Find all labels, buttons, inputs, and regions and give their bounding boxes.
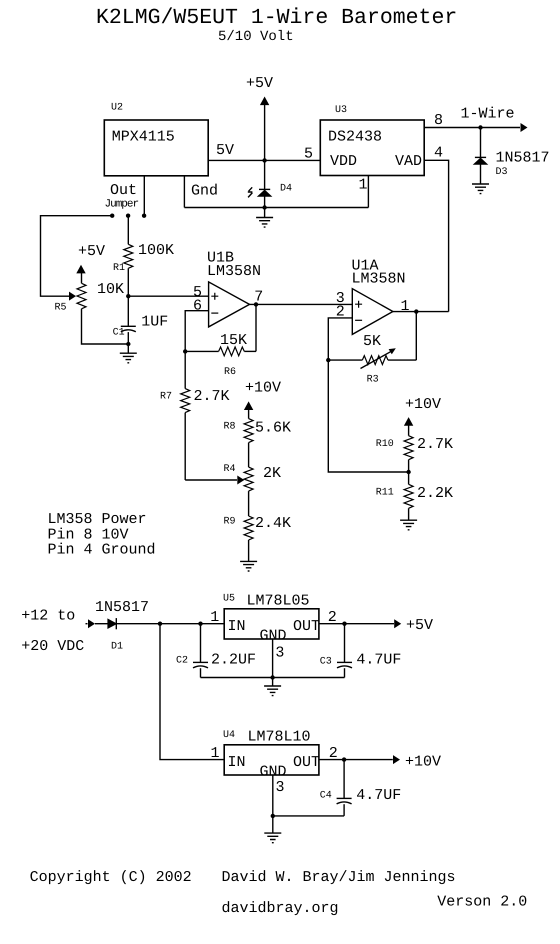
capacitor C1 1UF xyxy=(121,296,136,344)
wire U1B output to U1A pin 3 xyxy=(250,303,353,305)
node ground rail / D4 xyxy=(262,205,266,209)
potentiometer R4 2K xyxy=(244,467,253,516)
ground symbol (U5) xyxy=(264,678,281,696)
diode D3 xyxy=(474,128,487,185)
ground symbol (D4) xyxy=(256,208,273,228)
svg-text:Gnd: Gnd xyxy=(191,183,218,200)
wire U1B feedback xyxy=(255,304,257,351)
svg-text:6: 6 xyxy=(193,298,202,315)
R3 wiper arrow xyxy=(361,348,396,368)
IC U4 LM78L10 box xyxy=(224,745,319,775)
svg-text:1N5817: 1N5817 xyxy=(496,150,550,167)
svg-text:D3: D3 xyxy=(496,167,508,178)
svg-text:K2LMG/W5EUT 1-Wire Barometer: K2LMG/W5EUT 1-Wire Barometer xyxy=(96,6,457,30)
input wire stub xyxy=(86,623,88,625)
ground symbol (U4) xyxy=(264,816,281,843)
svg-text:5/10 Volt: 5/10 Volt xyxy=(218,29,294,45)
svg-text:Out: Out xyxy=(110,182,137,199)
jumper pad B xyxy=(126,214,130,218)
svg-text:2.2UF: 2.2UF xyxy=(211,652,256,669)
svg-text:R8: R8 xyxy=(224,422,236,433)
node 5V rail / D4 xyxy=(262,158,266,162)
node U1A output xyxy=(414,309,418,313)
resistor R9 2.4K xyxy=(244,516,253,561)
svg-text:2.7K: 2.7K xyxy=(417,436,453,453)
node U4 feed xyxy=(158,622,162,626)
IC U3 DS2438 box xyxy=(320,120,424,176)
svg-text:LM78L05: LM78L05 xyxy=(247,593,310,610)
svg-text:David W. Bray/Jim Jennings: David W. Bray/Jim Jennings xyxy=(222,869,456,886)
svg-text:R3: R3 xyxy=(367,375,379,386)
+5V output arrowhead xyxy=(394,619,401,628)
svg-text:2.4K: 2.4K xyxy=(255,515,291,532)
IC U2 MPX4115 box xyxy=(104,120,208,176)
wire 5V rail U2 to U3 xyxy=(208,159,320,161)
svg-text:U2: U2 xyxy=(111,103,123,114)
power +5V arrow (top) xyxy=(260,97,269,161)
wire U2 Gnd pin xyxy=(183,176,185,208)
wire U4 output xyxy=(319,759,393,761)
node 1-Wire / D3 xyxy=(478,125,482,129)
capacitor C4 4.7UF xyxy=(337,760,352,816)
svg-text:100K: 100K xyxy=(138,242,174,259)
ground symbol (C1) xyxy=(120,344,137,363)
svg-text:LM78L10: LM78L10 xyxy=(248,729,311,746)
svg-text:IN: IN xyxy=(228,754,246,771)
svg-text:VDD: VDD xyxy=(330,153,357,170)
node U1B inverting / R6 / R7 xyxy=(183,349,187,353)
wire U3 VAD to U1A output xyxy=(424,160,448,311)
1-Wire arrowhead xyxy=(521,123,528,132)
wire U1A pin 2 xyxy=(328,318,352,360)
ground symbol (R9) xyxy=(240,561,257,571)
node divider / U1B input xyxy=(126,294,130,298)
resistor R11 2.2K xyxy=(404,472,413,520)
node C1 / R5 ground xyxy=(126,342,130,346)
resistor R6 15K xyxy=(185,347,256,356)
resistor R1 100K xyxy=(124,216,133,296)
svg-text:Verson 2.0: Verson 2.0 xyxy=(437,894,527,911)
power +5V arrow (R5) xyxy=(76,265,85,274)
potentiometer R5 10K xyxy=(77,272,128,345)
svg-text:1UF: 1UF xyxy=(141,314,168,331)
capacitor C2 2.2UF xyxy=(193,624,208,678)
D4 zener mark xyxy=(248,187,253,197)
node U1B output xyxy=(254,302,258,306)
wire node to U1B pin 5 xyxy=(128,295,208,297)
svg-text:+5V: +5V xyxy=(246,75,273,92)
svg-text:C1: C1 xyxy=(113,328,125,339)
+10V output arrowhead xyxy=(393,755,400,764)
svg-text:5: 5 xyxy=(304,146,313,163)
node U4 ground xyxy=(271,814,275,818)
svg-text:2K: 2K xyxy=(263,465,281,482)
wire U5 GND pin xyxy=(272,639,274,678)
svg-text:2: 2 xyxy=(328,609,337,626)
power +10V arrow (R10) xyxy=(404,417,413,436)
svg-text:R10: R10 xyxy=(376,439,394,450)
wire 1-Wire rail xyxy=(424,127,520,129)
svg-text:R5: R5 xyxy=(55,303,67,314)
ground symbol (R11) xyxy=(400,520,417,530)
svg-text:2.7K: 2.7K xyxy=(194,388,230,405)
svg-text:U3: U3 xyxy=(335,105,347,116)
ground rail (top) xyxy=(184,207,368,209)
svg-text:U4: U4 xyxy=(223,730,235,741)
svg-text:3: 3 xyxy=(276,779,285,796)
svg-text:MPX4115: MPX4115 xyxy=(112,129,175,146)
potentiometer R3 5K xyxy=(328,312,416,365)
svg-text:4.7UF: 4.7UF xyxy=(356,787,401,804)
svg-text:C3: C3 xyxy=(320,657,332,668)
svg-text:D4: D4 xyxy=(280,184,292,195)
IC U5 LM78L05 box xyxy=(224,609,319,639)
resistor R10 2.7K xyxy=(404,436,413,472)
svg-text:7: 7 xyxy=(254,288,263,305)
svg-text:1: 1 xyxy=(359,177,368,194)
svg-text:1: 1 xyxy=(211,745,220,762)
svg-text:OUT: OUT xyxy=(293,754,320,771)
power +10V arrow (R8) xyxy=(244,401,253,418)
U1A minus symbol xyxy=(355,319,362,321)
svg-text:GND: GND xyxy=(260,764,287,781)
U4 ground rail xyxy=(273,815,344,817)
svg-text:4.7UF: 4.7UF xyxy=(356,652,401,669)
wire jumper to R5 wiper xyxy=(41,216,113,296)
svg-text:LM358N: LM358N xyxy=(207,263,261,280)
svg-text:8: 8 xyxy=(434,112,443,129)
svg-text:DS2438: DS2438 xyxy=(328,129,382,146)
svg-text:R7: R7 xyxy=(160,392,172,403)
wire U4 GND pin xyxy=(272,775,274,816)
svg-text:1: 1 xyxy=(210,609,219,626)
svg-text:C2: C2 xyxy=(176,656,188,667)
ground symbol (D3) xyxy=(472,184,489,194)
jumper pad A xyxy=(110,214,114,218)
svg-text:+12 to: +12 to xyxy=(21,608,75,625)
svg-text:LM358N: LM358N xyxy=(352,271,406,288)
wire to U4 input xyxy=(160,624,224,760)
U1B plus symbol xyxy=(211,293,218,300)
svg-text:2.2K: 2.2K xyxy=(417,485,453,502)
wire U5 output xyxy=(319,623,394,625)
svg-text:+10V: +10V xyxy=(245,380,281,397)
svg-text:Jumper: Jumper xyxy=(105,199,139,211)
wire D1 to U5 xyxy=(116,623,224,625)
node R3 left xyxy=(326,358,330,362)
wire U3 pin 1 to ground rail xyxy=(367,176,369,208)
svg-text:+10V: +10V xyxy=(405,396,441,413)
resistor R8 5.6K xyxy=(244,419,253,468)
svg-text:1N5817: 1N5817 xyxy=(95,599,149,616)
R5 wiper arrowhead xyxy=(69,292,76,301)
svg-text:LM358 Power: LM358 Power xyxy=(48,511,147,528)
zener diode D4 xyxy=(258,160,271,207)
node C3 top xyxy=(342,622,346,626)
svg-text:1-Wire: 1-Wire xyxy=(461,106,515,123)
diode D1 xyxy=(108,618,116,629)
svg-text:10K: 10K xyxy=(97,281,124,298)
U1B minus symbol xyxy=(211,312,218,314)
wire R7 to R4 wiper xyxy=(185,479,237,481)
svg-text:davidbray.org: davidbray.org xyxy=(222,900,339,917)
svg-text:5.6K: 5.6K xyxy=(255,420,291,437)
wire R3 node to R10/R11 node xyxy=(328,360,408,472)
op-amp U1A triangle xyxy=(352,289,393,335)
node U5 ground xyxy=(270,675,274,679)
svg-text:IN: IN xyxy=(228,618,246,635)
node C2 top xyxy=(198,622,202,626)
jumper pad C xyxy=(142,214,146,218)
U5 ground rail xyxy=(201,677,345,679)
svg-text:C4: C4 xyxy=(320,791,332,802)
svg-text:Copyright (C) 2002: Copyright (C) 2002 xyxy=(30,869,192,886)
svg-text:R9: R9 xyxy=(224,517,236,528)
svg-text:OUT: OUT xyxy=(293,618,320,635)
op-amp U1B triangle xyxy=(209,282,250,327)
wire U1A output xyxy=(393,311,449,313)
svg-text:R1: R1 xyxy=(113,263,125,274)
svg-text:1: 1 xyxy=(401,298,410,315)
svg-text:R4: R4 xyxy=(224,464,236,475)
svg-text:15K: 15K xyxy=(220,332,247,349)
svg-text:+10V: +10V xyxy=(405,754,441,771)
wire U2 Out pin xyxy=(143,176,145,216)
svg-text:3: 3 xyxy=(275,645,284,662)
svg-text:4: 4 xyxy=(434,145,443,162)
svg-text:U5: U5 xyxy=(223,594,235,605)
svg-text:2: 2 xyxy=(329,745,338,762)
wire input to D1 xyxy=(95,623,108,625)
resistor R7 2.7K xyxy=(181,351,190,480)
input arrowhead xyxy=(88,619,95,628)
svg-text:+5V: +5V xyxy=(406,617,433,634)
U1A plus symbol xyxy=(355,301,362,308)
node C4 top xyxy=(342,757,346,761)
svg-text:2: 2 xyxy=(336,304,345,321)
svg-text:VAD: VAD xyxy=(395,153,422,170)
node R10/R11 xyxy=(406,470,410,474)
R4 wiper arrowhead xyxy=(237,476,244,485)
svg-text:R11: R11 xyxy=(376,488,394,499)
svg-text:R6: R6 xyxy=(224,367,236,378)
svg-text:D1: D1 xyxy=(111,642,123,653)
svg-text:GND: GND xyxy=(260,628,287,645)
wire U1B pin 6 xyxy=(185,311,208,352)
capacitor C3 4.7UF xyxy=(337,624,352,678)
svg-text:5K: 5K xyxy=(363,333,381,350)
svg-text:+5V: +5V xyxy=(78,243,105,260)
svg-text:5V: 5V xyxy=(216,142,234,159)
svg-text:+20 VDC: +20 VDC xyxy=(21,638,84,655)
svg-text:Pin 4 Ground: Pin 4 Ground xyxy=(48,542,156,559)
